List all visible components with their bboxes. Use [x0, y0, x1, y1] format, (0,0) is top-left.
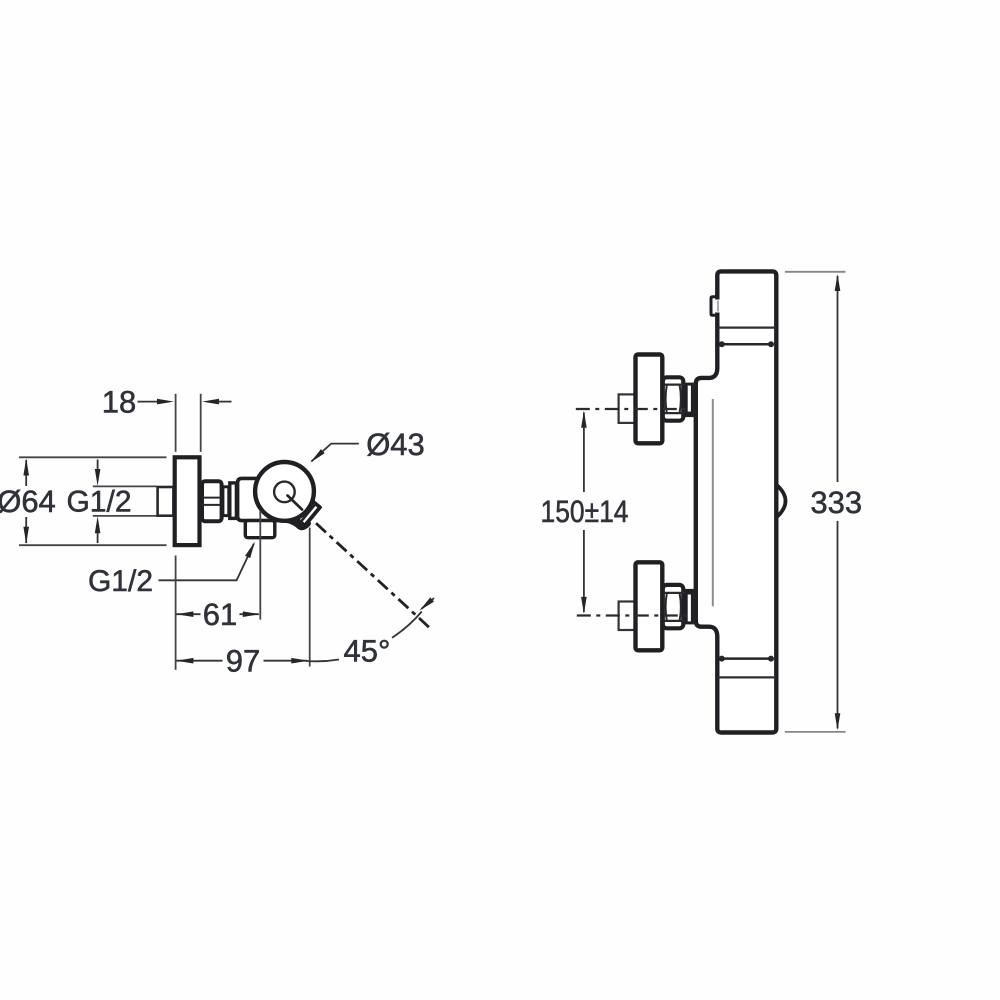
bottom valve handle — [636, 562, 663, 650]
bottom valve nut barrel arc right — [680, 593, 681, 620]
top valve nut facet top — [662, 384, 685, 386]
ring B — [230, 483, 237, 519]
dim 333 extension bottom — [785, 731, 846, 733]
dim Ø64 extension line bottom — [19, 544, 167, 546]
leader G1/2 lower arrow — [245, 540, 257, 558]
dim 97 line right — [264, 660, 308, 662]
dim 18 extension line left — [175, 394, 177, 452]
dim 150 line upper — [583, 413, 585, 493]
dim 18 right arrow — [202, 399, 219, 405]
dim 97 arrow right — [291, 658, 308, 664]
top valve nut facet bottom — [662, 412, 685, 414]
45 degree arrow tail — [422, 598, 435, 609]
inner cartridge line — [712, 399, 714, 606]
boss shoulder line bottom valve — [685, 589, 696, 593]
mixer body outline — [696, 271, 777, 732]
dim G1/2 upper arrow down — [95, 469, 101, 486]
dim 18 right tail — [218, 401, 232, 403]
hex nut facet line upper — [202, 497, 221, 499]
dim Ø64 line lower — [25, 517, 27, 543]
clip notch inner thin line — [717, 301, 719, 312]
inner knob circle — [274, 482, 295, 503]
dim 150 line lower — [583, 530, 585, 612]
45 degree arc — [306, 612, 422, 662]
dim 150 arrow up — [581, 411, 587, 428]
valve cap circle Ø43 — [255, 462, 314, 521]
dim G1/2 upper arrow down tail — [97, 460, 99, 474]
hex nut facet line lower — [202, 504, 221, 506]
hex nut — [202, 481, 222, 521]
spout band middle stripe — [301, 504, 315, 521]
dim 18 left tail — [138, 401, 160, 403]
extension line from outlet stub center — [259, 511, 261, 620]
top valve nut — [663, 377, 684, 420]
leader G1/2 lower — [159, 544, 254, 581]
dim 61 line left — [176, 613, 200, 615]
dim 18 extension line right — [200, 394, 202, 452]
dim Ø64 arrow up — [23, 459, 29, 476]
bottom outlet stub G1/2 — [245, 521, 274, 538]
dim 61 arrow right — [243, 611, 260, 617]
svg-text:333: 333 — [810, 485, 862, 520]
leader Ø43 — [312, 444, 359, 462]
dim 333 arrow up — [835, 274, 841, 291]
top valve nut barrel arc right — [680, 385, 681, 413]
dim Ø64 line upper — [25, 460, 27, 486]
dim 61 arrow left — [176, 611, 193, 617]
dim 18 left arrow — [157, 399, 174, 405]
top valve centerline — [576, 408, 691, 410]
dim G1/2 upper extension bottom — [93, 515, 157, 517]
knob pointer line — [288, 496, 303, 510]
dim G1/2 upper arrow up tail — [97, 530, 99, 544]
svg-text:Ø43: Ø43 — [366, 427, 425, 462]
dim 97 arrow left — [176, 658, 193, 664]
extension line from plate face — [175, 556, 177, 670]
svg-text:45°: 45° — [344, 634, 391, 669]
clip notch outline — [711, 297, 717, 315]
dim Ø64 arrow down — [23, 527, 29, 544]
svg-text:97: 97 — [226, 644, 260, 679]
dim 333 line upper — [837, 276, 839, 482]
svg-text:150±14: 150±14 — [541, 494, 629, 529]
body seam line bottom — [718, 676, 777, 678]
bottom valve nut facet top — [662, 592, 685, 594]
body joint line upper with end dots — [722, 343, 771, 346]
dim 333 line lower — [837, 521, 839, 729]
dim G1/2 upper extension top — [93, 485, 157, 487]
dim 61 line right — [240, 613, 259, 615]
spout foot — [287, 520, 309, 527]
right edge bump — [776, 485, 785, 518]
dim Ø64 extension line top — [19, 456, 167, 458]
top valve handle — [636, 355, 663, 444]
bottom valve wall block — [619, 602, 636, 631]
dim 333 extension top — [785, 271, 846, 273]
body seam line upper — [718, 326, 777, 328]
bottom valve nut barrel arc left — [666, 593, 667, 620]
top valve wall block — [619, 394, 636, 423]
svg-text:Ø64: Ø64 — [0, 484, 56, 519]
dim G1/2 upper arrow up — [95, 516, 101, 533]
svg-text:61: 61 — [203, 597, 237, 632]
bottom valve nut — [663, 585, 684, 628]
clip notch eraser — [712, 300, 720, 313]
dashed 45 degree axis — [316, 523, 430, 628]
top valve ring — [686, 384, 692, 413]
top valve nut barrel arc left — [666, 385, 667, 413]
svg-text:18: 18 — [102, 385, 136, 420]
spout outlet band — [296, 500, 320, 525]
leader Ø43 arrow — [308, 449, 324, 465]
valve body — [238, 478, 290, 520]
svg-text:G1/2: G1/2 — [66, 486, 131, 519]
svg-text:G1/2: G1/2 — [88, 565, 153, 598]
bottom valve centerline — [577, 614, 691, 616]
escutcheon plate — [175, 457, 200, 545]
wall pipe stub — [158, 487, 174, 516]
extension line from spout tip — [309, 528, 311, 667]
dim 97 line left — [176, 660, 222, 662]
bottom valve nut facet bottom — [662, 620, 685, 622]
body seam line lower with end dots — [722, 657, 771, 660]
boss shoulder line top valve — [685, 413, 696, 417]
dim 150 arrow down — [581, 597, 587, 614]
bottom valve ring — [686, 593, 692, 623]
dim 333 arrow down — [835, 713, 841, 730]
ring A — [223, 487, 229, 516]
45 degree arrow — [417, 597, 434, 612]
